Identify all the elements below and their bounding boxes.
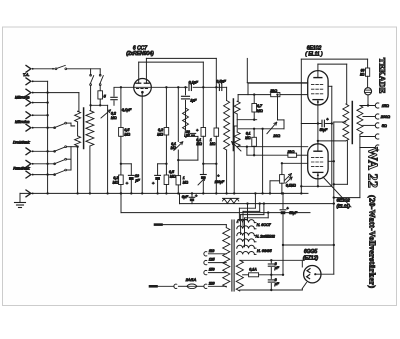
svg-text:H. 6GG5: H. 6GG5	[257, 249, 272, 253]
svg-text:0,1µF: 0,1µF	[122, 108, 132, 112]
svg-text:MΩ: MΩ	[183, 181, 189, 185]
svg-text:5Ω: 5Ω	[382, 124, 387, 128]
svg-text:H. 6CC7: H. 6CC7	[257, 223, 272, 227]
svg-text:(20-Watt-Vollverstärker): (20-Watt-Vollverstärker)	[368, 195, 377, 288]
svg-text:0,5: 0,5	[169, 170, 174, 174]
svg-text:MΩ: MΩ	[171, 146, 177, 150]
svg-text:200Ω: 200Ω	[380, 115, 390, 119]
svg-text:0,2: 0,2	[113, 176, 118, 180]
svg-text:125: 125	[209, 258, 215, 262]
svg-text:MΩ: MΩ	[210, 142, 216, 146]
svg-text:0,1MΩ: 0,1MΩ	[286, 184, 296, 188]
svg-text:MΩ: MΩ	[124, 133, 130, 137]
svg-text:50µF: 50µF	[320, 128, 329, 132]
svg-text:Drahtfunk: Drahtfunk	[13, 140, 31, 144]
svg-text:Mikrofon: Mikrofon	[15, 95, 30, 99]
svg-text:150: 150	[209, 268, 215, 272]
svg-text:TEKADE: TEKADE	[378, 58, 387, 94]
svg-text:Rundfunk: Rundfunk	[13, 166, 30, 170]
svg-text:0,5µF: 0,5µF	[216, 80, 226, 84]
svg-text:10: 10	[135, 174, 139, 178]
svg-text:2kΩ: 2kΩ	[269, 89, 277, 93]
svg-text:( EL11 ): ( EL11 )	[305, 52, 323, 58]
svg-text:MΩ: MΩ	[196, 142, 202, 146]
svg-text:(EZ12): (EZ12)	[303, 256, 319, 262]
svg-text:H. 2x6E102: H. 2x6E102	[256, 234, 275, 238]
svg-text:0,2: 0,2	[158, 128, 163, 132]
svg-text:MΩ: MΩ	[113, 181, 119, 185]
svg-text:2A/1A: 2A/1A	[185, 278, 197, 282]
svg-text:0,1µF: 0,1µF	[189, 80, 199, 84]
svg-text:50µF: 50µF	[289, 211, 298, 215]
svg-text:(2xREN904): (2xREN904)	[126, 51, 154, 57]
svg-text:2kΩ: 2kΩ	[287, 150, 295, 154]
svg-text:MΩ: MΩ	[170, 175, 176, 179]
svg-text:20Ω: 20Ω	[272, 134, 280, 138]
svg-text:MΩ: MΩ	[257, 109, 263, 113]
svg-text:15Ω: 15Ω	[382, 104, 389, 108]
svg-text:0,2: 0,2	[111, 112, 116, 116]
svg-text:6µF: 6µF	[182, 195, 189, 199]
svg-text:1µF: 1µF	[190, 99, 197, 103]
svg-text:kΩ: kΩ	[360, 73, 365, 77]
svg-text:110: 110	[209, 249, 215, 253]
svg-text:WA 22: WA 22	[365, 147, 380, 188]
svg-text:MΩ: MΩ	[157, 133, 163, 137]
svg-text:T.A.: T.A.	[23, 73, 30, 77]
svg-text:Mikrofon: Mikrofon	[15, 120, 30, 124]
svg-text:6GG5: 6GG5	[304, 249, 318, 255]
svg-text:0,1A: 0,1A	[249, 268, 257, 272]
svg-text:MΩ: MΩ	[111, 116, 117, 120]
svg-text:6E102: 6E102	[307, 45, 322, 51]
svg-text:220: 220	[208, 281, 215, 285]
svg-text:MΩ: MΩ	[245, 136, 251, 140]
svg-text:0,5: 0,5	[124, 128, 129, 132]
